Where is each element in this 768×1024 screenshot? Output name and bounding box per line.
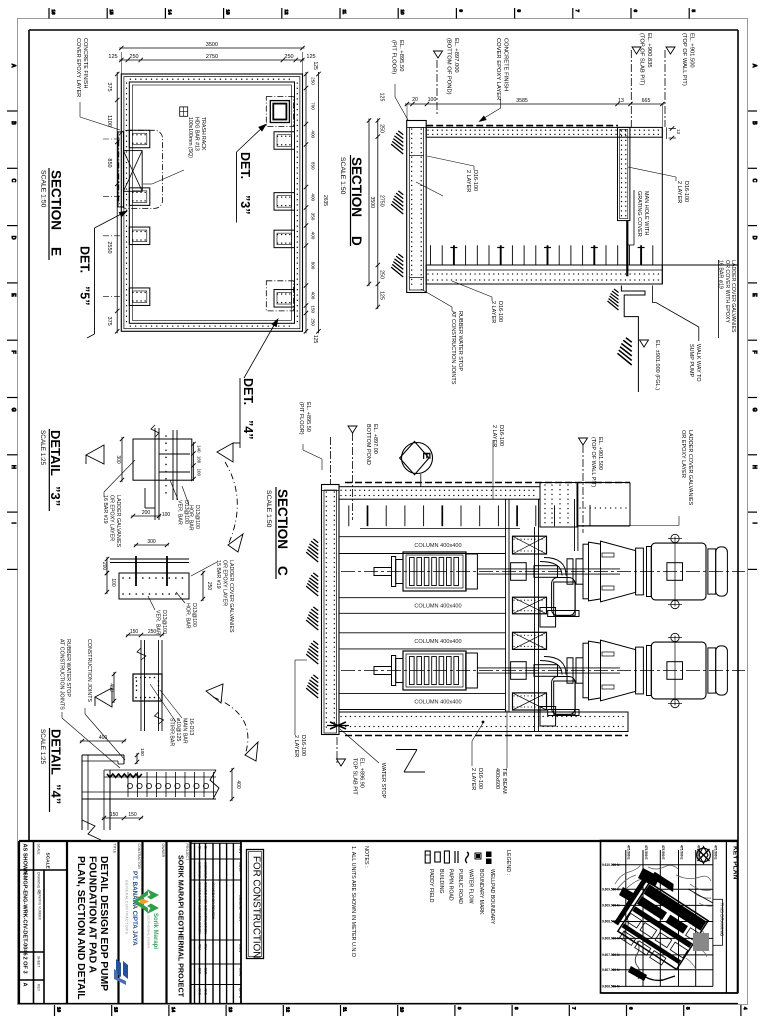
svg-text:CONCRETE FINISH: CONCRETE FINISH	[82, 38, 88, 88]
section E top dimension chain	[108, 52, 315, 74]
column stub left y=235.8	[129, 227, 150, 245]
svg-text:F: F	[751, 351, 757, 354]
svg-text:OR EPOXY LAYER: OR EPOXY LAYER	[222, 560, 228, 606]
svg-text:COLUMN 400x400: COLUMN 400x400	[414, 604, 461, 610]
section E plan outer walls	[121, 74, 302, 331]
svg-text:ISSUED FOR REVIEW: ISSUED FOR REVIEW	[211, 882, 215, 920]
svg-text:Sorik Marapi: Sorik Marapi	[152, 913, 158, 949]
key plan contours	[615, 864, 712, 979]
svg-text:200: 200	[142, 510, 151, 516]
svg-text:NOTES :: NOTES :	[363, 846, 369, 868]
tie beam block y=597.7	[513, 597, 547, 614]
svg-text:BOTTOM POND: BOTTOM POND	[365, 424, 371, 465]
svg-text:BOUNDARY MARK: BOUNDARY MARK	[478, 869, 484, 915]
svg-text:250: 250	[311, 318, 316, 326]
svg-text:DRAWING NUMBER: DRAWING NUMBER	[38, 890, 42, 921]
svg-text:800: 800	[311, 262, 316, 270]
svg-text:250: 250	[311, 77, 316, 85]
svg-text:9.607.500 N: 9.607.500 N	[602, 953, 620, 957]
column band y=597.7	[339, 598, 506, 614]
title cell	[75, 841, 119, 1004]
svg-text:LADDER GALVANIES: LADDER GALVANIES	[115, 495, 121, 548]
motor cy=670.5	[647, 633, 728, 707]
svg-text:100: 100	[162, 512, 171, 518]
svg-text:AT CONSTRUCTION JOINTS: AT CONSTRUCTION JOINTS	[450, 311, 456, 385]
svg-text:COLUMN 400x400: COLUMN 400x400	[414, 699, 461, 705]
svg-text:12: 12	[285, 1007, 290, 1013]
svg-text:”4”: ”4”	[49, 784, 64, 804]
section D top slab	[426, 127, 662, 137]
svg-text:250: 250	[129, 54, 138, 60]
section C earth hatch	[306, 539, 318, 698]
svg-text:125: 125	[379, 291, 385, 300]
svg-text:AFS: AFS	[198, 988, 202, 996]
svg-text:TIE BEAM: TIE BEAM	[501, 768, 507, 794]
section D ground line right	[662, 264, 738, 266]
notes	[350, 846, 369, 957]
svg-text:C: C	[10, 179, 16, 183]
legend	[425, 850, 511, 925]
svg-text:EL. +900.835: EL. +900.835	[646, 33, 652, 68]
tie beam block y=632.8	[513, 632, 547, 649]
svg-text:DESCRIPTION: DESCRIPTION	[238, 895, 242, 921]
svg-text:COVER EPOXY LAYER: COVER EPOXY LAYER	[495, 38, 501, 100]
svg-text:1/29/2018: 1/29/2018	[198, 862, 202, 878]
svg-text:16: 16	[51, 10, 56, 16]
section E right overall dim 2635	[312, 62, 328, 344]
section D earth hatch left	[391, 131, 403, 277]
svg-text:850: 850	[311, 162, 316, 170]
section E title	[40, 168, 64, 260]
svg-text:13: 13	[618, 98, 624, 104]
svg-text:D16-100: D16-100	[683, 181, 689, 202]
svg-text:1/23/2018: 1/23/2018	[204, 862, 208, 878]
svg-text:COLUMN 400x400: COLUMN 400x400	[414, 639, 461, 645]
svg-text:A: A	[22, 983, 28, 987]
svg-text:”3”: ”3”	[238, 195, 252, 214]
svg-text:DET.: DET.	[78, 246, 92, 273]
svg-text:9.608.000 N: 9.608.000 N	[602, 937, 620, 941]
svg-text:475.500 E: 475.500 E	[661, 845, 665, 860]
svg-text:DETAIL: DETAIL	[49, 729, 64, 775]
section D left wall	[407, 121, 427, 293]
manhole chute line	[626, 221, 628, 277]
svg-text:13: 13	[676, 129, 681, 135]
svg-text:C: C	[751, 179, 757, 183]
svg-text:9.609.000 N: 9.609.000 N	[602, 904, 620, 908]
man hole with grating cover label	[627, 190, 649, 245]
svg-text:TW: TW	[204, 944, 208, 950]
svg-text:475.500 E: 475.500 E	[679, 845, 683, 860]
svg-text:D16-100: D16-100	[300, 735, 306, 756]
svg-text:2550: 2550	[106, 241, 112, 253]
svg-text:OR EPOXY LAYER: OR EPOXY LAYER	[680, 430, 686, 478]
svg-text:LADDER COVER GALVANIES: LADDER COVER GALVANIES	[730, 260, 736, 333]
svg-text:140: 140	[197, 445, 202, 453]
D16-100 label left wall (sec D)	[416, 182, 443, 196]
column stub left y=196.6	[129, 188, 150, 206]
svg-text:400: 400	[311, 130, 316, 138]
pump assembly cy=670.5	[374, 640, 643, 715]
svg-text:150: 150	[128, 812, 137, 818]
ladder cover label (sec C)	[578, 430, 693, 526]
svg-text:LADDER COVER GALVANIES: LADDER COVER GALVANIES	[687, 430, 693, 506]
svg-text:(TOP OF SLAB PIT): (TOP OF SLAB PIT)	[639, 33, 645, 85]
trash rack label	[143, 107, 206, 184]
svg-text:CONTRACTOR: CONTRACTOR	[137, 844, 141, 870]
svg-text:D16-100: D16-100	[477, 768, 483, 789]
for construction stamp	[247, 850, 264, 959]
section E top dimension 3500	[119, 42, 305, 50]
svg-text:125: 125	[306, 54, 315, 60]
DET 4 label	[240, 317, 281, 449]
contractor logo	[114, 959, 128, 985]
svg-text:2 LAYER: 2 LAYER	[676, 181, 682, 203]
section D top dim chain	[405, 97, 665, 127]
svg-text:350: 350	[311, 213, 316, 221]
title block left field texts	[22, 844, 51, 992]
svg-text:2750: 2750	[379, 195, 385, 207]
svg-text:250: 250	[284, 54, 293, 60]
svg-text:100: 100	[110, 578, 116, 587]
tie beam block y=693.4	[513, 693, 547, 710]
svg-text:150: 150	[311, 305, 316, 313]
svg-text:475.500 E: 475.500 E	[714, 845, 718, 860]
svg-text:OR COVER WITH EPOXY: OR COVER WITH EPOXY	[724, 260, 730, 323]
svg-text:475.500 E: 475.500 E	[644, 845, 648, 860]
D16-100 label top slab (sec D)	[427, 156, 478, 192]
svg-text:EL. +897.000: EL. +897.000	[453, 38, 459, 73]
EL +901.500 top of wall label (sec D)	[665, 33, 695, 127]
column stub right y=238.9	[274, 230, 295, 248]
svg-text:180: 180	[197, 456, 202, 464]
detail 3 bar labels upper	[170, 480, 200, 531]
svg-text:12: 12	[284, 10, 289, 16]
svg-text:FOR CONSTRUCTION: FOR CONSTRUCTION	[251, 856, 262, 958]
svg-text:D16-100: D16-100	[498, 425, 504, 446]
column band y=536.7	[339, 537, 506, 554]
column section detail middle	[133, 640, 164, 731]
svg-text:DET.: DET.	[238, 152, 252, 179]
svg-text:400: 400	[235, 780, 241, 789]
svg-text:THIS DRAWING: THIS DRAWING	[720, 903, 725, 937]
svg-text:CONCRETE FINISH: CONCRETE FINISH	[503, 38, 509, 91]
svg-text:I: I	[751, 522, 757, 523]
svg-text:H: H	[10, 465, 16, 469]
project cell	[177, 841, 191, 1004]
svg-text:D: D	[751, 236, 757, 240]
svg-text:EL. +895.50: EL. +895.50	[398, 40, 404, 71]
svg-text:1100: 1100	[106, 115, 112, 127]
svg-text:SUMP PUMP: SUMP PUMP	[688, 344, 694, 378]
svg-text:H: H	[751, 465, 757, 469]
svg-text:EL. +895.50: EL. +895.50	[305, 402, 311, 432]
contractor cell	[125, 841, 143, 1004]
owner cell	[161, 841, 167, 1004]
svg-text:2 OF 3: 2 OF 3	[22, 957, 28, 974]
title block top border	[19, 840, 738, 842]
svg-text:9.610.000 N: 9.610.000 N	[602, 863, 620, 867]
svg-text:VER. BAR: VER. BAR	[177, 500, 183, 525]
svg-text:14: 14	[171, 1007, 176, 1013]
detail 3 dims upper	[115, 437, 202, 518]
column stub left y=139	[129, 130, 150, 148]
svg-text:3500: 3500	[369, 196, 375, 208]
svg-text:14: 14	[167, 10, 172, 16]
svg-text:F: F	[10, 351, 16, 354]
svg-text:CHK: CHK	[238, 968, 242, 976]
svg-text:DRN: DRN	[238, 944, 242, 952]
svg-text:RUBBER WATER STOP: RUBBER WATER STOP	[457, 311, 463, 371]
svg-text:150: 150	[130, 629, 139, 635]
section cut marker E diamond	[400, 442, 433, 488]
pump assembly cy=571.5	[374, 541, 643, 616]
svg-text:G: G	[751, 408, 757, 412]
svg-text:125: 125	[108, 54, 117, 60]
sorik marapi logo	[133, 889, 159, 949]
column stub right y=140.5	[274, 132, 295, 150]
section D overall dim 3500	[367, 118, 375, 286]
svg-text:11: 11	[342, 10, 347, 15]
svg-text:665: 665	[642, 98, 651, 104]
pump centerline cy=571.5	[341, 571, 745, 573]
svg-text:SECTION: SECTION	[49, 170, 64, 230]
svg-text:C: C	[275, 566, 290, 576]
svg-text:2 LAYER: 2 LAYER	[470, 768, 476, 790]
svg-text:2 LAYER: 2 LAYER	[465, 170, 471, 192]
svg-text:”4”: ”4”	[241, 420, 255, 439]
svg-text:COVER EPOXY LAYER: COVER EPOXY LAYER	[75, 38, 81, 97]
trash rack	[118, 130, 163, 208]
svg-text:PAPIN ROAD: PAPIN ROAD	[447, 869, 453, 901]
detail 4 dims	[80, 735, 241, 820]
svg-text:3500: 3500	[206, 42, 218, 48]
svg-text:LADDER COVER GALVANIES: LADDER COVER GALVANIES	[228, 560, 234, 633]
section C bottom slab	[339, 712, 628, 732]
rubber water stop label (sec D)	[421, 289, 463, 385]
svg-text:(BOTTOM OF POND): (BOTTOM OF POND)	[446, 38, 452, 95]
svg-text:100: 100	[197, 469, 202, 477]
svg-text:375: 375	[106, 317, 112, 326]
svg-text:LEGEND :: LEGEND :	[505, 850, 511, 875]
svg-text:400: 400	[311, 193, 316, 201]
concrete finish label (sec D)	[477, 38, 508, 124]
svg-text:APPD: APPD	[238, 988, 242, 999]
dashdot box bottom right of plan	[266, 281, 293, 311]
svg-text:HOR. BAR: HOR. BAR	[188, 505, 194, 531]
svg-text:GEOTHERMAL POWER: GEOTHERMAL POWER	[147, 915, 151, 949]
svg-text:C: C	[198, 846, 203, 849]
D16-100 label bottom slab (sec D)	[452, 281, 503, 323]
EL +897.000 bottom of pond label (sec D)	[434, 38, 460, 116]
svg-text:SCALE: SCALE	[37, 844, 41, 856]
D16-100 top label (sec C)	[491, 425, 504, 499]
walk way to sump pump label	[688, 344, 701, 382]
key plan north compass	[697, 847, 711, 864]
section E wall rebar dots	[127, 79, 298, 326]
svg-text:200: 200	[101, 562, 107, 571]
bottom labels (sec C)	[337, 710, 508, 799]
detail 3 title	[39, 429, 63, 511]
D16-100 label manhole (sec D)	[628, 167, 689, 203]
svg-text:15: 15	[109, 10, 114, 16]
svg-text:AFS: AFS	[204, 988, 208, 996]
svg-text:2 LAYER: 2 LAYER	[491, 425, 497, 447]
EL +895.50 pit floor label (sec D)	[391, 40, 409, 120]
section C top slab dashed cover	[345, 482, 630, 484]
svg-text:COLUMN 400x400: COLUMN 400x400	[414, 543, 461, 549]
svg-text:250: 250	[379, 124, 385, 133]
section C title	[265, 487, 290, 579]
column detail labels	[59, 639, 195, 768]
detail 3 beam cross-section lower	[110, 556, 189, 599]
svg-text:”5”: ”5”	[78, 286, 92, 305]
svg-text:DET.: DET.	[241, 378, 255, 405]
detail 3 dashed arc	[225, 462, 243, 552]
svg-text:EL. +897.00: EL. +897.00	[372, 424, 378, 454]
section D stirrup comb	[431, 245, 653, 265]
key plan coordinate labels	[602, 845, 718, 989]
key plan box	[601, 841, 739, 994]
column stub left y=296.7	[129, 288, 150, 306]
svg-text:20: 20	[412, 97, 418, 103]
section C stirrup comb	[349, 505, 555, 528]
svg-text:D13@100: D13@100	[161, 610, 167, 634]
svg-text:BUILDING: BUILDING	[438, 869, 444, 894]
svg-text:400x600: 400x600	[494, 768, 500, 789]
break symbol below slab (sec C)	[396, 750, 425, 773]
svg-text:125: 125	[312, 335, 318, 344]
svg-text:E: E	[420, 452, 432, 459]
key plan site cluster	[609, 868, 715, 981]
column band y=693.4	[339, 693, 506, 709]
svg-text:OWNER: OWNER	[161, 844, 165, 858]
svg-text:300: 300	[147, 539, 156, 545]
section C top right wall block	[540, 483, 630, 552]
column detail dims	[108, 629, 164, 703]
svg-text:16: 16	[57, 1007, 62, 1013]
svg-text:400: 400	[99, 735, 108, 741]
sump box top right of plan	[266, 97, 293, 127]
svg-text:100: 100	[428, 97, 437, 103]
svg-text:SCALE 1:50: SCALE 1:50	[265, 490, 272, 528]
section E right dimension chain	[304, 72, 316, 334]
section C right wall verticals	[506, 499, 539, 731]
svg-text:(PIT FLOOR): (PIT FLOOR)	[298, 402, 304, 435]
svg-text:DETAIL DESIGN EDP PUMP: DETAIL DESIGN EDP PUMP	[98, 856, 109, 991]
svg-text:250: 250	[379, 270, 385, 279]
section D bottom slab	[426, 265, 662, 284]
this drawing label	[688, 889, 725, 945]
EL 897.00 bottom pond label (sec C)	[348, 424, 378, 520]
svg-text:PUBLIC ROAD: PUBLIC ROAD	[457, 869, 463, 904]
svg-text:(PIT FLOOR): (PIT FLOOR)	[391, 40, 397, 74]
svg-text:9.609.500 N: 9.609.500 N	[602, 888, 620, 892]
svg-text:1. ALL UNITS ARE SHOWN IN METE: 1. ALL UNITS ARE SHOWN IN METER U.N.O	[350, 846, 356, 957]
svg-text:15: 15	[114, 1007, 119, 1013]
svg-text:OR EPOXY LAYER: OR EPOXY LAYER	[109, 495, 115, 541]
svg-text:D13@100: D13@100	[191, 603, 197, 627]
svg-text:10: 10	[400, 1007, 405, 1013]
svg-text:SHEET: SHEET	[37, 956, 41, 967]
svg-text:SMGP-ENG-WRK-CIV-DET-0046: SMGP-ENG-WRK-CIV-DET-0046	[22, 872, 28, 956]
detail 3 ladder label	[102, 460, 135, 548]
svg-text:ISSUED FOR CONSTRUCTION: ISSUED FOR CONSTRUCTION	[198, 882, 202, 934]
svg-text:TOP SLAB PIT: TOP SLAB PIT	[352, 758, 358, 795]
svg-text:100: 100	[140, 748, 145, 756]
svg-text:REV: REV	[37, 984, 41, 992]
svg-text:SECTION: SECTION	[349, 157, 364, 217]
svg-text:400: 400	[311, 292, 316, 300]
revision table	[191, 841, 243, 1004]
EL 901.500 label (sec C)	[579, 437, 604, 533]
svg-text:DW: DW	[198, 968, 202, 975]
D16-100 label near detail4	[293, 660, 307, 757]
svg-text:400: 400	[311, 232, 316, 240]
title block left fields grid	[19, 841, 738, 1004]
pump pedestals	[540, 582, 575, 726]
svg-text:PADDY FIELD: PADDY FIELD	[428, 869, 434, 903]
svg-text:D16-100: D16-100	[472, 170, 478, 191]
svg-text:SECTION: SECTION	[275, 489, 290, 549]
svg-text:PLAN, SECTION AND DETAIL: PLAN, SECTION AND DETAIL	[75, 856, 86, 1000]
svg-text:WALK WAY TO: WALK WAY TO	[695, 344, 701, 382]
svg-text:SCALE 1:25: SCALE 1:25	[39, 430, 46, 466]
column band y=632.8	[339, 633, 506, 649]
svg-text:(TOP OF WALL PIT): (TOP OF WALL PIT)	[681, 33, 687, 86]
svg-text:3585: 3585	[516, 98, 528, 104]
section D right edge	[662, 126, 681, 284]
svg-text:D16-100: D16-100	[497, 301, 503, 322]
svg-text:13: 13	[226, 10, 231, 16]
detail 3 bar labels lower	[148, 560, 234, 635]
svg-text:13: 13	[228, 1007, 233, 1013]
svg-text:CONSTRUCTION JOINTS: CONSTRUCTION JOINTS	[86, 639, 92, 702]
svg-text:EL. +896.90: EL. +896.90	[359, 758, 365, 788]
svg-text:AT CONSTRUCTION JOINTS: AT CONSTRUCTION JOINTS	[59, 639, 65, 710]
detail 3 section flags upper	[86, 443, 240, 464]
section D grating cover dashed line	[426, 125, 618, 127]
svg-text:”3”: ”3”	[48, 486, 63, 506]
svg-text:250: 250	[148, 629, 157, 635]
svg-text:FOUNDATION AT PAD A: FOUNDATION AT PAD A	[87, 856, 98, 974]
svg-text:475.500 E: 475.500 E	[627, 845, 631, 860]
svg-text:EL. ±901.000 (FGL.): EL. ±901.000 (FGL.)	[654, 340, 660, 390]
svg-text:2635: 2635	[322, 195, 328, 206]
svg-text:WATER STOP: WATER STOP	[380, 763, 386, 799]
section D title	[339, 155, 364, 246]
svg-text:AS SHOWN: AS SHOWN	[22, 844, 28, 875]
svg-text:9.607.000 N: 9.607.000 N	[602, 968, 620, 972]
water stop cross at wall base	[327, 722, 349, 729]
svg-text:I: I	[10, 522, 16, 523]
svg-text:150: 150	[110, 812, 119, 818]
svg-text:DATE: DATE	[238, 862, 242, 872]
svg-text:250: 250	[206, 582, 212, 591]
svg-text:850: 850	[106, 158, 112, 167]
svg-text:300: 300	[115, 455, 121, 464]
detail 4 corner drawing	[82, 755, 219, 840]
svg-text:B: B	[204, 846, 209, 849]
section D manhole wall	[618, 127, 630, 220]
detail 3 wall plan box	[133, 425, 192, 520]
svg-text:MAN HOLE WITH: MAN HOLE WITH	[643, 191, 649, 235]
svg-text:WELLPAD BOUNDARY: WELLPAD BOUNDARY	[489, 869, 495, 925]
svg-text:11: 11	[343, 1007, 348, 1012]
svg-text:D: D	[349, 236, 364, 246]
svg-text:EL. +901.500: EL. +901.500	[597, 437, 603, 470]
EL +900.835 top of slab label (sec D)	[631, 33, 652, 127]
